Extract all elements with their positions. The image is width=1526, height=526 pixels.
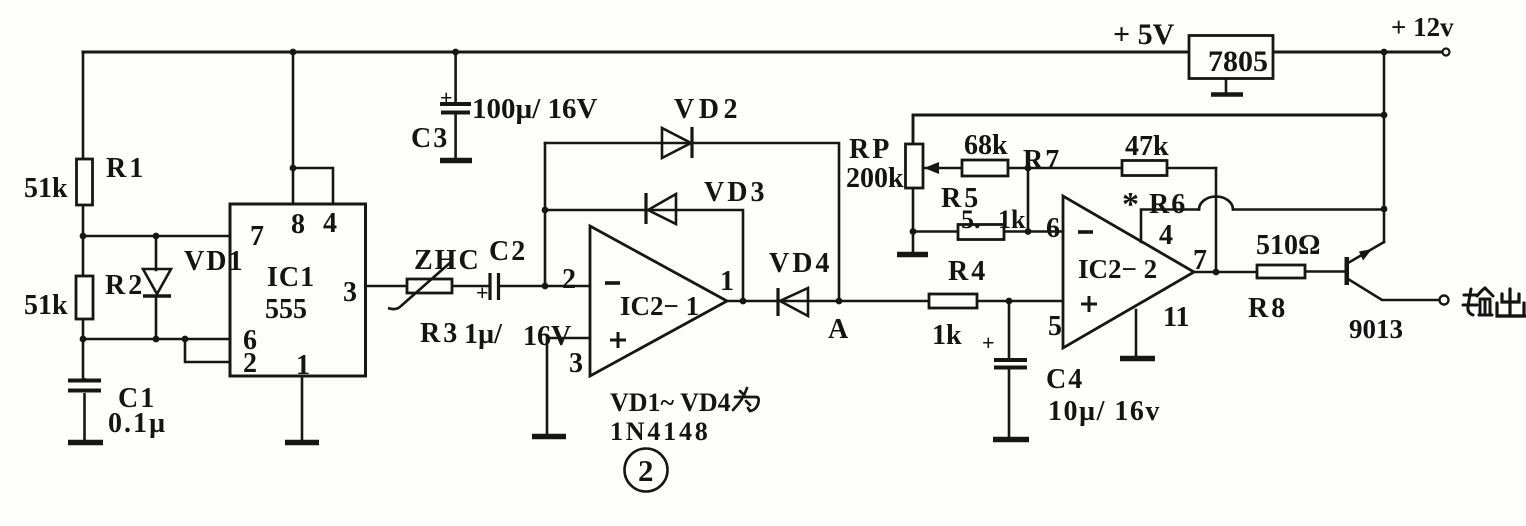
wire node at y339 horizontal to 555 pin6 <box>83 338 230 341</box>
wire transistor collector limb <box>1348 242 1384 263</box>
svg-text:5: 5 <box>1048 311 1062 342</box>
resistor R2 51k <box>76 276 93 319</box>
svg-text:R7: R7 <box>1023 145 1061 176</box>
wire left vertical R1/R2 branch <box>82 52 85 379</box>
wire IC2-2 pin11 to ground <box>1135 310 1138 356</box>
op-amp IC2-2 plus sign <box>1081 296 1097 312</box>
terminal +12v <box>1443 49 1450 56</box>
resistor R1 51k <box>77 159 93 205</box>
figure number circled 2 <box>625 449 668 492</box>
svg-text:5.: 5. <box>961 205 981 234</box>
ground IC2-1 pin3 <box>532 434 566 440</box>
node top rail C3 <box>452 49 459 56</box>
node VD1 top <box>153 233 160 240</box>
potentiometer RP 200k body <box>906 144 924 188</box>
wire jog to 555 pin2 <box>185 339 230 362</box>
svg-text:100µ/ 16V: 100µ/ 16V <box>472 93 598 125</box>
svg-text:+: + <box>476 280 489 305</box>
svg-text:R1: R1 <box>106 153 146 184</box>
svg-text:VD2: VD2 <box>674 94 742 125</box>
svg-text:RP: RP <box>849 134 892 165</box>
node pin4 supply junction <box>1381 206 1388 213</box>
svg-text:VD4: VD4 <box>769 248 832 279</box>
svg-text:VD3: VD3 <box>704 177 767 208</box>
wire 7805 ground stem <box>1225 79 1228 93</box>
capacitor C4 plates <box>994 360 1027 368</box>
capacitor C3 plates <box>440 104 471 113</box>
svg-text:11: 11 <box>1163 302 1189 333</box>
svg-text:+ 12v: + 12v <box>1391 12 1454 42</box>
node VD3 line left <box>542 207 549 214</box>
svg-text:+: + <box>982 330 995 355</box>
svg-text:VD1: VD1 <box>184 246 244 277</box>
svg-text:7805: 7805 <box>1208 45 1268 78</box>
svg-text:510Ω: 510Ω <box>1256 230 1320 261</box>
svg-text:2: 2 <box>638 453 654 488</box>
node 555 bracket <box>290 165 297 172</box>
capacitor C1 stems <box>83 378 86 440</box>
transistor Q1 collector arrow <box>1359 249 1372 261</box>
hanzi chu (output label char 2) <box>1497 289 1525 316</box>
wire 555 supply drop with pin8 pin4 bracket <box>293 52 333 204</box>
resistor R6 47k <box>1122 161 1167 176</box>
node second rail right <box>1381 112 1388 119</box>
wire +12v vertical drop <box>1383 52 1386 242</box>
wire R8 to transistor base <box>1305 270 1345 273</box>
op-amp IC2-1 plus sign <box>610 332 626 348</box>
node IC2-2 output <box>1213 269 1220 276</box>
svg-text:ZHC: ZHC <box>414 245 481 276</box>
svg-text:16V: 16V <box>523 321 571 352</box>
node top rail +12v junction <box>1381 49 1388 56</box>
svg-text:1µ/: 1µ/ <box>464 319 503 350</box>
wire RP wiper line through R7 and R6 <box>925 167 1216 170</box>
node R5 line junction <box>1025 228 1032 235</box>
svg-text:0.1µ: 0.1µ <box>108 408 167 439</box>
node R7 wiper junction <box>1025 165 1032 172</box>
svg-text:3: 3 <box>569 348 583 379</box>
wire transistor emitter to output terminal <box>1348 279 1439 300</box>
wire IC2-1 output through VD4 to node A <box>727 300 839 303</box>
node VD1 bottom <box>153 336 160 343</box>
node A <box>836 298 843 305</box>
resistor R4 1k <box>929 294 977 308</box>
svg-text:R6: R6 <box>1149 189 1187 220</box>
svg-text:9013: 9013 <box>1349 314 1403 344</box>
wire C3 branch <box>454 52 457 158</box>
wire node A to R4 <box>839 300 929 303</box>
svg-text:51k: 51k <box>24 173 68 204</box>
wire node at y236 horizontal to 555 pin7 <box>83 235 230 238</box>
svg-text:1: 1 <box>296 350 310 381</box>
svg-text:47k: 47k <box>1125 131 1169 162</box>
node left y339 <box>80 336 87 343</box>
wire feedback vertical at x545 <box>544 143 547 286</box>
diode VD4 <box>778 288 808 316</box>
wire VD3 feedback line <box>545 210 743 301</box>
svg-text:7: 7 <box>1193 245 1207 276</box>
wire IC2-2 output to R8 <box>1194 271 1257 274</box>
resistor R3 ZHC thermistor body <box>407 279 452 293</box>
wire ZHC to C2 <box>452 285 488 288</box>
regulator U1 7805 box <box>1189 36 1273 79</box>
svg-text:1k: 1k <box>932 320 962 351</box>
wire 555 pin3 to ZHC <box>366 285 408 288</box>
ground 7805 <box>1211 92 1243 97</box>
svg-text:R3: R3 <box>420 318 460 349</box>
svg-text:10µ/ 16v: 10µ/ 16v <box>1048 396 1161 427</box>
hanzi shu (output label char 1) <box>1463 288 1493 315</box>
svg-text:R2: R2 <box>105 270 145 301</box>
wire 555 pin1 to ground <box>301 376 304 440</box>
op-amp IC2-1 minus sign <box>605 281 620 285</box>
svg-text:68k: 68k <box>964 130 1008 161</box>
ground C1 <box>68 440 103 446</box>
resistor R5 5.1k <box>958 225 1004 240</box>
svg-text:8: 8 <box>291 209 305 240</box>
svg-text:C4: C4 <box>1046 364 1084 395</box>
svg-text:7: 7 <box>250 221 264 252</box>
svg-text:1k: 1k <box>998 205 1026 234</box>
svg-text:VD1~ VD4: VD1~ VD4 <box>610 388 731 417</box>
svg-text:2: 2 <box>562 264 576 295</box>
terminal output <box>1440 296 1449 305</box>
diode VD2 <box>662 127 692 158</box>
svg-text:+: + <box>440 85 453 110</box>
ground IC1 pin1 <box>285 440 319 446</box>
svg-text:*: * <box>1122 186 1139 223</box>
svg-text:1: 1 <box>720 266 734 297</box>
wire top +5V rail <box>83 50 1189 53</box>
node left y236 <box>80 233 87 240</box>
svg-text:C2: C2 <box>489 236 527 267</box>
wire IC2-2 pin4 supply with hop <box>1141 210 1384 243</box>
ground IC2-2 pin11 <box>1120 356 1155 362</box>
ground C4 <box>993 437 1029 443</box>
svg-text:2: 2 <box>243 348 257 379</box>
svg-text:1N4148: 1N4148 <box>610 417 711 446</box>
node C2 to IC2-1 input <box>542 283 549 290</box>
svg-text:3: 3 <box>343 277 357 308</box>
wire C4 branch <box>1008 301 1011 437</box>
diode VD3 <box>646 193 676 224</box>
ground C3 <box>440 158 472 164</box>
resistor R8 510 ohm <box>1257 265 1305 278</box>
IC1 555 box <box>230 204 366 376</box>
svg-text:A: A <box>828 314 849 345</box>
svg-text:IC2− 1: IC2− 1 <box>620 291 699 321</box>
ground RP <box>897 252 928 258</box>
wire hop arc over feedback <box>1199 197 1233 210</box>
wire R7 junction drop to R5 line <box>1027 168 1030 232</box>
wire VD1 branch vertical <box>155 236 158 339</box>
wire second rail +12v to RP <box>913 115 1384 144</box>
wire IC2-1 pin3 to ground <box>547 338 590 433</box>
wire R6 feedback drop to IC2-2 output <box>1215 168 1218 272</box>
wire R4 to IC2-2 pin5 <box>977 300 1063 303</box>
potentiometer RP wiper arrow <box>924 162 939 174</box>
node pin2 jog <box>182 336 189 343</box>
hanzi wei (of VD1~VD4 note) <box>733 388 759 411</box>
op-amp U2B IC2-2 triangle <box>1063 196 1194 348</box>
capacitor C2 plates <box>490 273 499 300</box>
diode VD1 <box>143 269 171 296</box>
svg-text:C3: C3 <box>411 123 449 154</box>
svg-text:IC2− 2: IC2− 2 <box>1078 254 1157 284</box>
svg-text:R4: R4 <box>948 256 988 287</box>
resistor R3 ZHC diagonal stroke <box>388 261 452 309</box>
node R4 C4 <box>1006 298 1013 305</box>
node RP bottom <box>910 228 917 235</box>
op-amp U2A IC2-1 triangle <box>590 226 727 376</box>
svg-text:51k: 51k <box>24 290 68 321</box>
svg-text:4: 4 <box>323 208 337 239</box>
wire VD2 feedback line <box>545 143 839 301</box>
svg-text:4: 4 <box>1159 220 1173 251</box>
wire C2 to IC2-1 inverting input <box>500 285 590 288</box>
transistor Q1 9013 base bar <box>1345 257 1350 285</box>
resistor R7 68k <box>962 160 1008 176</box>
svg-text:6: 6 <box>1046 213 1060 244</box>
node IC2-1 output VD3 drop <box>740 298 747 305</box>
svg-text:555: 555 <box>265 294 307 325</box>
node top rail 555 supply <box>290 49 297 56</box>
svg-text:200k: 200k <box>846 163 904 194</box>
op-amp IC2-2 minus sign <box>1078 230 1093 234</box>
svg-text:R8: R8 <box>1248 293 1288 324</box>
capacitor C1 plates <box>68 381 101 391</box>
wire RP bottom to ground and R5 line <box>913 188 1063 252</box>
svg-text:+ 5V: + 5V <box>1113 18 1175 51</box>
svg-text:IC1: IC1 <box>267 262 315 293</box>
wire 7805 output to +12v terminal <box>1273 51 1441 54</box>
